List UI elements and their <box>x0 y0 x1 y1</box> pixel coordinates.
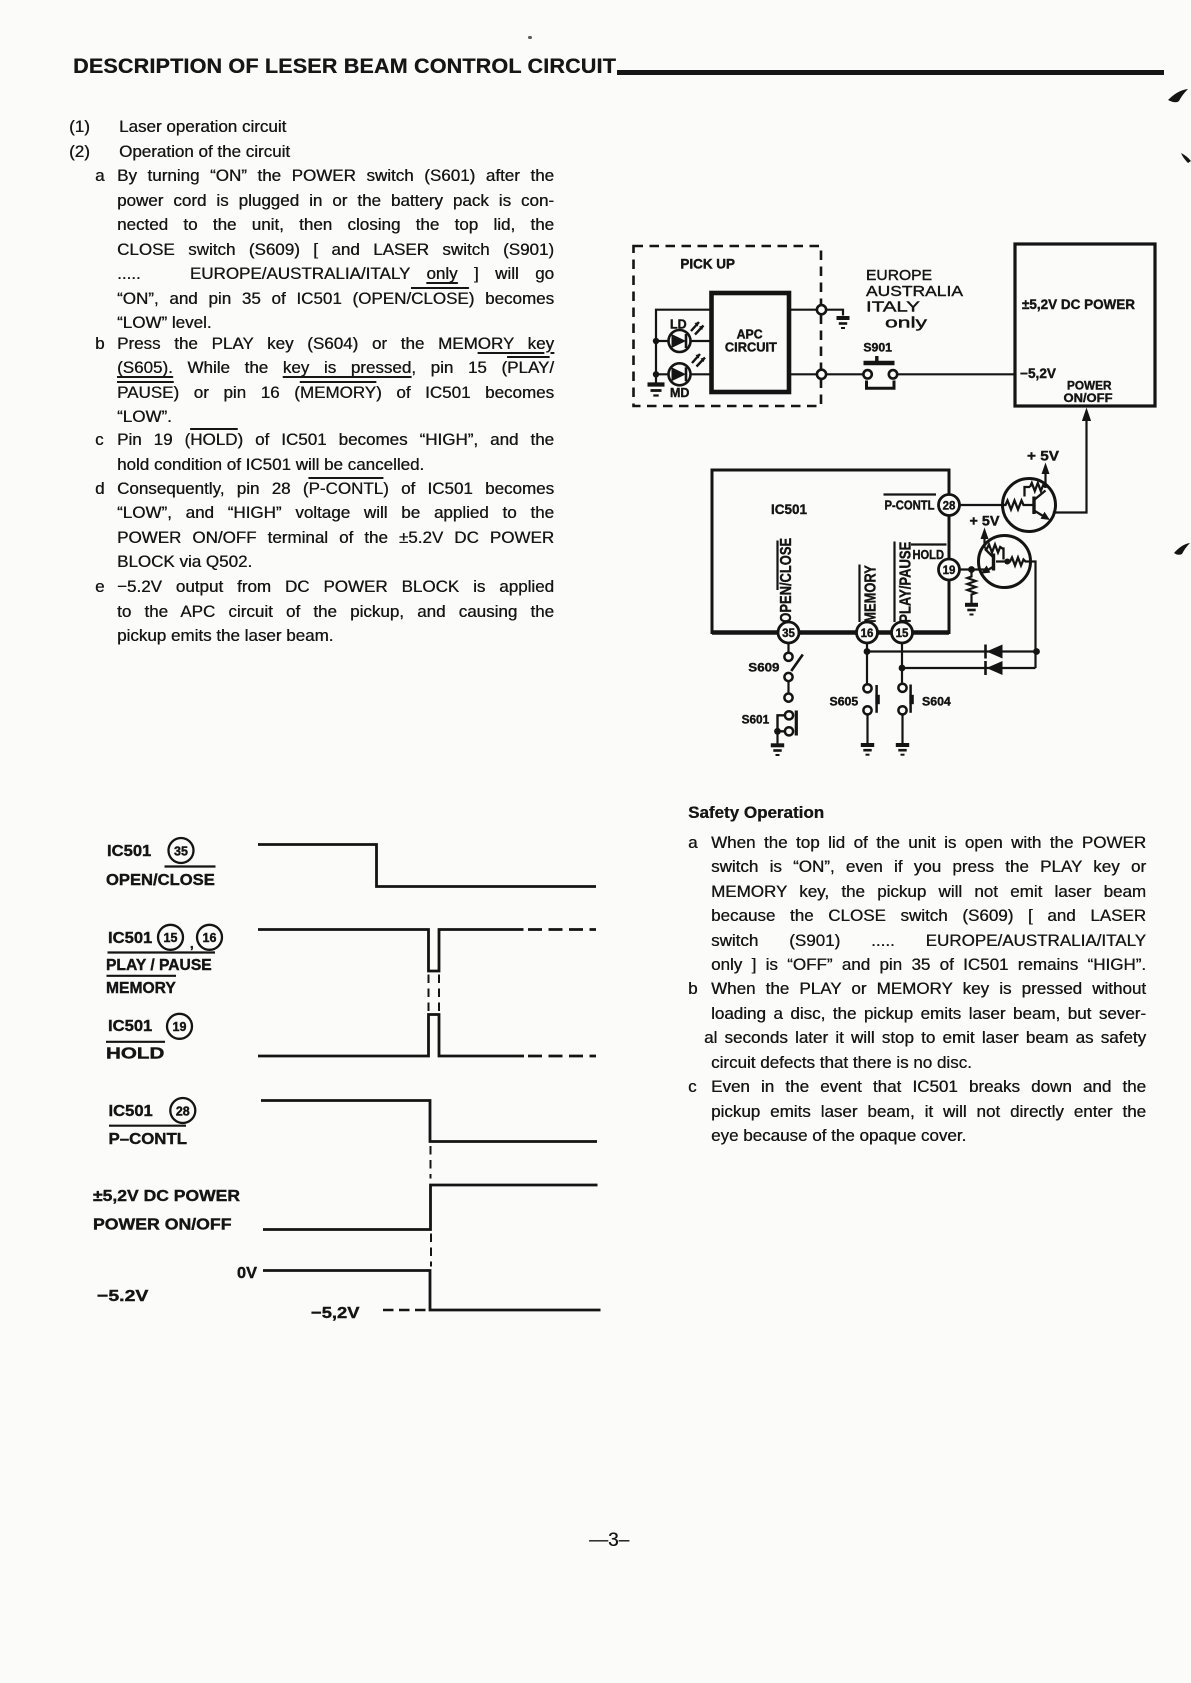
dashed vertical below row5 rise <box>430 1234 432 1267</box>
dashed -5.2V reference level <box>383 1309 429 1311</box>
wire APC top-left to left bus <box>656 310 712 383</box>
svg-text:35: 35 <box>782 628 795 640</box>
ground (S605) <box>861 745 874 755</box>
pin label PLAY/PAUSE (pin 15, vertical) <box>895 542 915 623</box>
svg-text:15: 15 <box>164 931 178 945</box>
waveform row3: HOLD <box>258 1015 524 1057</box>
dashed verticals below row2 pulse <box>429 975 440 1012</box>
+5V supply (Q2) <box>970 513 1001 549</box>
transistor Q2 (Q502 digital transistor) <box>979 536 1032 588</box>
svg-text:−5,2V: −5,2V <box>311 1305 360 1322</box>
wire APC right bottom to terminal <box>789 373 817 375</box>
wire LD line <box>656 340 712 342</box>
node LD junction <box>653 338 659 344</box>
wire pin35 down <box>787 643 789 653</box>
ground (pin19 resistor) <box>965 600 978 615</box>
ground (S601) <box>771 731 784 755</box>
svg-text:PICK UP: PICK UP <box>680 257 735 272</box>
svg-text:AUSTRALIA: AUSTRALIA <box>866 283 963 300</box>
svg-text:28: 28 <box>943 501 956 513</box>
label row2: IC501 pins 15,16 <box>106 930 216 997</box>
svg-text:S609: S609 <box>748 661 780 675</box>
terminal (bottom, on pickup box edge) <box>817 370 826 379</box>
svg-text:−5.2V: −5.2V <box>97 1288 149 1305</box>
svg-text:S604: S604 <box>922 695 951 709</box>
node S601 upper terminal <box>784 694 792 702</box>
LEFT COLUMN TEXT <box>69 118 90 135</box>
wire APC right top to terminal <box>789 309 817 311</box>
svg-text:35: 35 <box>174 845 188 859</box>
svg-text:P–CONTL: P–CONTL <box>109 1131 188 1148</box>
svg-text:PLAY / PAUSE: PLAY / PAUSE <box>106 957 212 974</box>
label row5: DC POWER <box>93 1188 240 1234</box>
wire pin19 to Q2 emitter <box>960 568 986 570</box>
svg-text:IC501: IC501 <box>108 930 152 947</box>
wire S605 to ground <box>866 714 868 743</box>
diode D2 line (to pin15) <box>899 661 1036 675</box>
wire Q1 emitter to POWER ON/OFF (arrow up) <box>1053 420 1087 513</box>
svg-text:OPEN/CLOSE: OPEN/CLOSE <box>778 538 795 623</box>
switch S601 (power switch) <box>742 711 797 736</box>
svg-text:MEMORY: MEMORY <box>863 565 880 623</box>
svg-text:IC501: IC501 <box>108 1018 152 1035</box>
svg-text:OPEN/CLOSE: OPEN/CLOSE <box>106 872 215 889</box>
label row1: IC501 pin35 <box>106 843 215 889</box>
wire pin28 to Q1 <box>960 504 1005 506</box>
ground (S604) <box>896 745 909 755</box>
pin label MEMORY (pin 16, vertical) <box>860 565 880 623</box>
DC power block <box>1015 244 1155 406</box>
svg-text:MEMORY: MEMORY <box>106 980 176 997</box>
SAFETY OPERATION COLUMN <box>688 804 824 821</box>
svg-text:19: 19 <box>173 1020 187 1034</box>
laser diode LD <box>669 318 704 353</box>
svg-text:S601: S601 <box>742 713 770 727</box>
svg-text:S605: S605 <box>830 695 859 709</box>
pin 28 <box>939 495 960 516</box>
svg-text:EUROPE: EUROPE <box>866 267 932 284</box>
svg-text:,: , <box>190 936 194 951</box>
wire S604 to ground <box>901 714 903 743</box>
wire pin15 down to S604 <box>901 643 903 684</box>
ground (pickup left) <box>648 385 665 396</box>
pin label HOLD (pin 19) <box>911 545 947 563</box>
svg-text:S901: S901 <box>863 341 892 355</box>
svg-text:IC501: IC501 <box>107 843 151 860</box>
svg-text:28: 28 <box>176 1105 190 1119</box>
svg-text:MD: MD <box>670 386 689 400</box>
svg-text:only: only <box>885 316 928 332</box>
+5V supply (Q1) <box>1027 448 1060 489</box>
wire pin16 down to S605 <box>866 643 868 684</box>
svg-text:+ 5V: + 5V <box>1027 448 1060 464</box>
pin label OPEN/CLOSE (pin 35, vertical) <box>778 538 795 623</box>
svg-text:CIRCUIT: CIRCUIT <box>725 341 777 355</box>
resistor (pin19 pulldown) <box>967 570 975 601</box>
label row4: IC501 pin28 <box>109 1103 190 1148</box>
svg-text:−5,2V: −5,2V <box>1020 366 1056 381</box>
svg-text:±5,2V DC POWER: ±5,2V DC POWER <box>93 1188 240 1205</box>
svg-text:15: 15 <box>896 628 909 640</box>
svg-text:16: 16 <box>861 628 874 640</box>
pin label P-CONTL (pin 28) <box>884 495 937 513</box>
PAGE NUMBER <box>589 1531 629 1550</box>
switch S604 (play key) <box>898 684 951 715</box>
svg-text:0V: 0V <box>237 1265 257 1282</box>
svg-text:ON/OFF: ON/OFF <box>1064 391 1113 405</box>
label row6: -5.2V <box>97 1265 360 1322</box>
wire S901 to DC power block <box>897 373 1015 375</box>
wire Q2 to diode bus (vertical right) <box>1031 562 1036 669</box>
scan artifact marks (right margin) <box>1168 89 1191 555</box>
waveform row2: PLAY/PAUSE MEMORY <box>258 930 524 972</box>
ground (after top terminal) <box>837 318 850 328</box>
svg-text:19: 19 <box>943 565 956 577</box>
wire MD line <box>656 373 712 375</box>
switch S901 (laser switch) <box>863 341 897 389</box>
switch S605 (memory key) <box>830 684 880 714</box>
svg-text:POWER ON/OFF: POWER ON/OFF <box>93 1217 232 1234</box>
svg-text:LD: LD <box>670 318 687 332</box>
pin 35 <box>778 622 799 643</box>
waveform row6: -5.2V output <box>263 1271 601 1311</box>
svg-text:16: 16 <box>203 931 217 945</box>
svg-text:P-CONTL: P-CONTL <box>885 499 935 513</box>
APC circuit block U-APC <box>712 293 790 392</box>
wire S609 to S601 <box>787 681 789 693</box>
transistor Q1 (digital transistor to DC power) <box>1003 479 1056 532</box>
switch S609 (close switch) <box>748 653 803 681</box>
svg-text:HOLD: HOLD <box>106 1046 164 1063</box>
diode D1 line (to pin16) <box>864 645 1040 659</box>
svg-text:APC: APC <box>737 328 763 342</box>
terminal (top, on pickup box edge) <box>817 305 826 314</box>
svg-text:PLAY/PAUSE: PLAY/PAUSE <box>898 542 915 623</box>
svg-text:HOLD: HOLD <box>913 548 945 562</box>
TITLE <box>528 36 532 39</box>
region label EUROPE/AUSTRALIA/ITALY only <box>866 267 963 332</box>
node pin19 junction <box>968 566 975 573</box>
svg-text:IC501: IC501 <box>771 502 807 517</box>
dashed vertical below row4 fall <box>430 1146 432 1179</box>
pin 15 <box>892 622 913 643</box>
wire terminal to ground <box>826 310 843 316</box>
IC501 block <box>712 470 949 633</box>
svg-text:±5,2V DC POWER: ±5,2V DC POWER <box>1022 297 1135 312</box>
waveform row5: POWER ON/OFF <box>263 1185 598 1230</box>
monitor diode MD <box>669 354 706 400</box>
waveform row4: P-CONTL <box>261 1101 597 1142</box>
label row3: IC501 pin19 <box>106 1018 186 1063</box>
node MD junction <box>653 371 659 377</box>
svg-text:+ 5V: + 5V <box>970 513 1001 529</box>
pin 16 <box>857 622 878 643</box>
waveform row1: OPEN/CLOSE <box>258 845 596 887</box>
svg-text:ITALY: ITALY <box>866 299 920 316</box>
pin 19 <box>939 559 960 580</box>
pickup dashed enclosure <box>634 246 822 406</box>
wire terminal to S901 <box>826 373 863 375</box>
svg-text:IC501: IC501 <box>109 1103 153 1120</box>
